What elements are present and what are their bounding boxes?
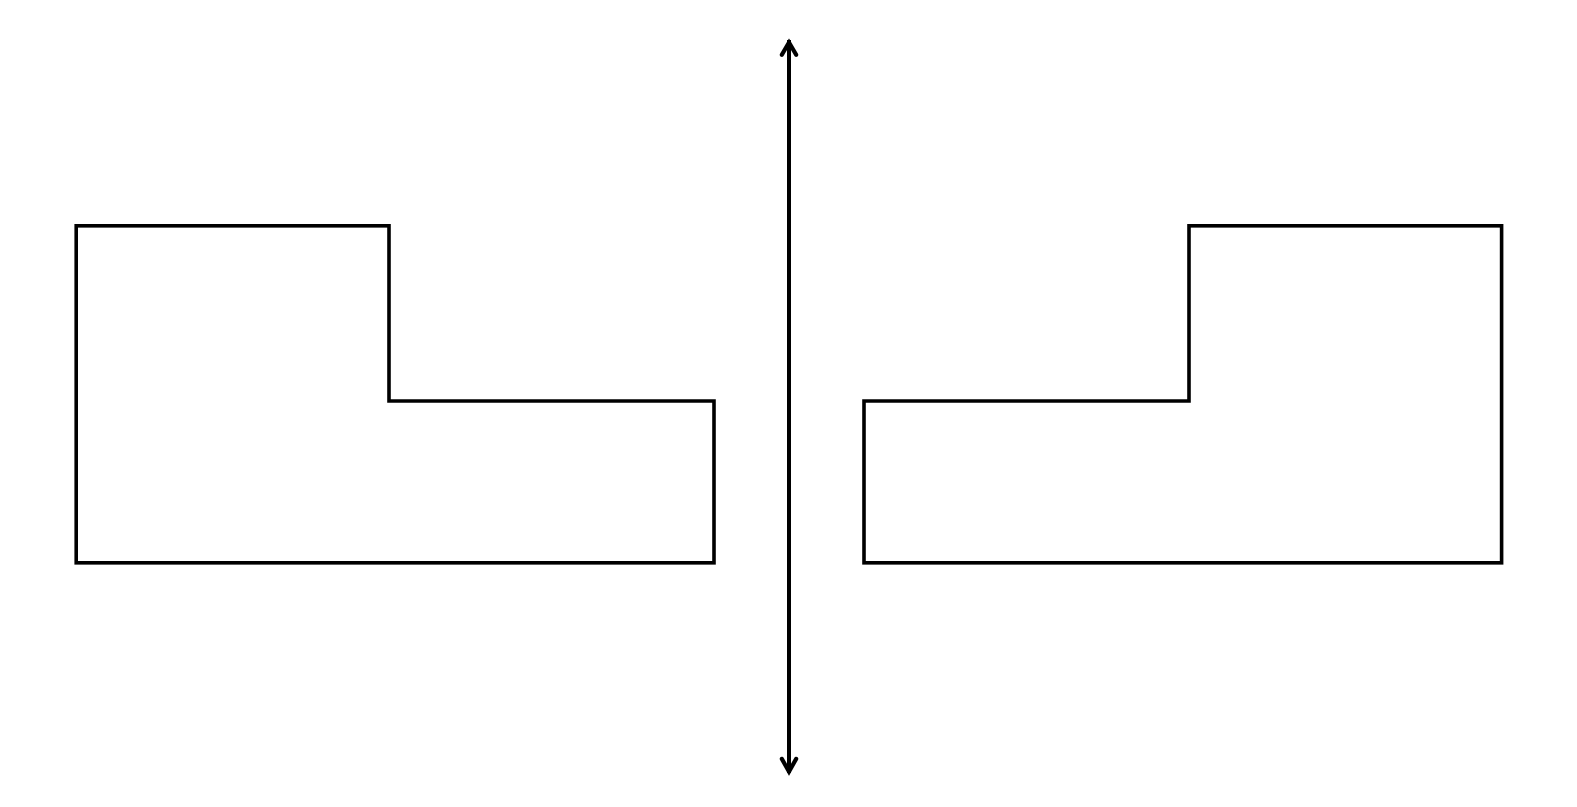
mirror line (axis of symmetry) [787,40,791,773]
left L-shaped figure [76,226,714,563]
top arrowhead [782,43,796,55]
right L-shaped figure (reflection) [864,226,1502,563]
bottom arrowhead [782,759,796,772]
